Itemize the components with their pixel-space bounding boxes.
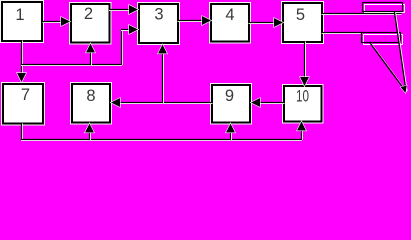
box 5	[283, 3, 322, 42]
wire box4 to box5	[249, 23, 276, 24]
arrowhead into box8 right	[111, 98, 120, 107]
arrowhead into box8 bottom	[85, 124, 94, 133]
arrowhead into box2 left	[61, 17, 70, 26]
arrowhead into box2 bottom	[86, 44, 95, 53]
wire branch up into box10 bottom	[302, 129, 303, 140]
wire box7 bottom down to bottom rail	[22, 124, 23, 140]
arrowhead into box3 upper-left	[129, 5, 138, 14]
arrowhead into box5 left	[274, 18, 283, 27]
wire box5 bottom down to box10	[305, 42, 306, 79]
svg-text:7: 7	[21, 86, 30, 104]
box 10	[284, 86, 322, 122]
wire box1 to box2	[43, 22, 63, 23]
box 9	[212, 85, 250, 123]
wire branch up into box2 bottom	[91, 51, 92, 65]
wire box9 to box8	[118, 103, 212, 104]
box 7	[3, 84, 43, 124]
box 3	[139, 4, 178, 43]
wire corner up at x=121 to y=29	[122, 30, 123, 65]
wire branch up into box8 bottom	[90, 131, 91, 140]
bar 1 (thin rectangle top right)	[363, 3, 405, 13]
wire box5 right lower toward bar2	[322, 33, 362, 34]
bar 2 (thin rectangle right)	[362, 33, 403, 45]
wire box10 to box9	[258, 103, 284, 104]
wire box5 right upper toward bar1	[322, 14, 401, 15]
svg-text:2: 2	[84, 5, 93, 23]
arrowhead into box10 top	[300, 77, 309, 86]
box 1	[2, 2, 42, 41]
arrowhead at convergence bottom right	[401, 86, 407, 94]
arrowhead into box4 left	[202, 16, 211, 25]
wire right into box3 lower-left	[122, 30, 132, 31]
arrowhead into box7 top	[17, 73, 26, 82]
wire branch up into box9 bottom	[231, 131, 232, 140]
box 8	[72, 84, 110, 123]
wire box2 to box3	[110, 10, 132, 11]
svg-text:5: 5	[296, 6, 305, 24]
wire box1 bottom down to box7	[22, 41, 23, 74]
svg-text:4: 4	[225, 6, 234, 24]
arrowhead into box10 bottom	[297, 122, 306, 131]
wire branch from box1 vertical right along y=64	[22, 65, 122, 66]
wire box3 to box4	[178, 21, 204, 22]
bottom rail wire	[22, 140, 302, 141]
box 4	[211, 4, 249, 42]
svg-text:8: 8	[86, 87, 95, 105]
svg-text:10: 10	[296, 88, 309, 106]
svg-text:3: 3	[154, 6, 163, 24]
arrowhead into box9 bottom	[226, 124, 235, 133]
arrowhead into box3 lower-left	[129, 25, 138, 34]
diagonal D1 from bar1 to arrow point	[395, 13, 408, 91]
svg-text:9: 9	[225, 87, 234, 105]
svg-text:1: 1	[15, 6, 24, 24]
wire branch up from 9-8 wire into box3 bottom	[163, 52, 164, 103]
diagonal D2 from bar2 to arrow point	[371, 44, 407, 92]
box 2	[71, 4, 110, 43]
arrowhead into box9 right	[251, 98, 260, 107]
arrowhead into box3 bottom	[158, 45, 167, 54]
